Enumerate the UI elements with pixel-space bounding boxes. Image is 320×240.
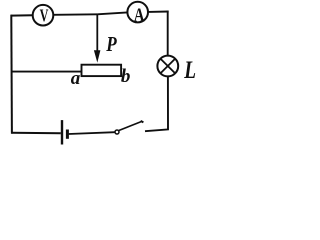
rheostat slider arrowhead (94, 50, 101, 62)
voltmeter V (33, 5, 54, 26)
wire to rheostat terminal a (11, 71, 81, 73)
svg-text:A: A (134, 4, 145, 26)
lamp L (157, 56, 178, 77)
wire top-left corner to voltmeter (11, 14, 33, 16)
wire lamp to bottom-right corner and to switch (145, 76, 168, 131)
wire junction to ammeter (97, 12, 127, 14)
ammeter A (127, 2, 148, 27)
svg-text:b: b (121, 66, 130, 87)
wire battery to bottom-left corner (11, 132, 61, 135)
wire ammeter to top-right corner (148, 11, 168, 13)
battery cell positive plate (long) (61, 120, 63, 144)
wire right side down to lamp (167, 11, 169, 57)
rheostat slider wire (96, 14, 98, 52)
svg-text:P: P (105, 32, 116, 56)
svg-text:a: a (71, 68, 81, 89)
wire switch to battery (69, 132, 115, 134)
battery cell negative plate (short thick) (66, 130, 69, 139)
rheostat P body (82, 65, 122, 76)
svg-text:L: L (184, 57, 197, 84)
switch S (115, 121, 143, 134)
wire left side (10, 15, 13, 134)
svg-text:V: V (40, 6, 49, 26)
wire voltmeter to slider junction (54, 13, 98, 16)
